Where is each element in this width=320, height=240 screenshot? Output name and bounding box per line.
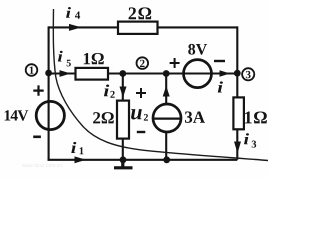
- label 8V: [188, 44, 207, 55]
- label i5 (subscript 5): [67, 60, 71, 67]
- junction dot 3A branch bottom: [163, 156, 170, 163]
- label i4 (i): [66, 7, 71, 18]
- arrowhead i1: [75, 156, 87, 163]
- arrowhead i (8V branch): [220, 70, 231, 77]
- cut-set curve: [53, 9, 268, 161]
- resistor 2 ohm (top): [118, 22, 158, 34]
- label i5 (i): [58, 51, 63, 62]
- node marker circle 1: [26, 64, 38, 76]
- wire bottom rail: [48, 159, 238, 161]
- resistor 1 ohm (right vertical): [233, 97, 244, 129]
- watermark: [22, 163, 62, 167]
- wire left vertical branch: [48, 26, 50, 159]
- label i2 (subscript 2): [110, 91, 114, 98]
- label i4 (subscript 4): [75, 12, 80, 19]
- label i (8V branch): [218, 81, 223, 92]
- label u2 (u): [131, 109, 142, 119]
- junction dot ground node: [120, 156, 127, 163]
- resistor 2 ohm (left vertical): [117, 101, 129, 139]
- label 3A: [185, 111, 205, 122]
- wire 3A source vertical branch: [165, 74, 167, 160]
- wire through 14V source: [48, 102, 50, 130]
- ground symbol: [114, 160, 133, 168]
- label i2 (i): [104, 85, 109, 97]
- wire through 8V source: [184, 72, 211, 74]
- resistor 1 ohm (middle): [76, 68, 109, 80]
- label i3 (i): [244, 133, 249, 144]
- label 1 ohm (right vertical resistor): [245, 111, 267, 123]
- arrowhead i4: [69, 24, 82, 31]
- voltage source 8V circle: [184, 60, 212, 88]
- label i3 (subscript 3): [252, 141, 257, 148]
- label i1 (subscript 1): [80, 147, 84, 154]
- plus sign 8V: [170, 58, 180, 68]
- label 2 ohm (left vertical resistor): [93, 112, 114, 123]
- junction dot node 1: [45, 70, 52, 77]
- junction dot node 3: [234, 70, 241, 77]
- node marker circle 3: [242, 68, 254, 80]
- node digit 3: [246, 71, 251, 78]
- node digit 2: [140, 60, 145, 67]
- minus sign 8V: [214, 60, 225, 62]
- label 1 ohm (middle resistor): [84, 53, 104, 64]
- arrowhead i3: [234, 142, 241, 154]
- junction dot 3A branch top: [163, 70, 170, 77]
- wire top rail: [48, 26, 237, 28]
- label i1 (i): [71, 142, 76, 153]
- minus sign u2: [137, 131, 146, 133]
- voltage source 14V circle: [36, 101, 64, 129]
- current source 3A transverse bar: [154, 117, 181, 119]
- wire u2 / 2 ohm vertical branch: [122, 74, 124, 160]
- current source 3A circle: [153, 104, 181, 132]
- arrowhead i2: [120, 87, 127, 98]
- node marker circle 2: [137, 57, 149, 69]
- minus sign 14V: [33, 136, 41, 139]
- wire middle rail node1-node3: [49, 72, 238, 74]
- arrowhead i5: [60, 70, 71, 77]
- arrowhead 3A source direction: [163, 86, 170, 97]
- label 2 ohm (top resistor): [129, 7, 152, 19]
- node digit 1: [30, 67, 34, 74]
- plus sign 14V: [33, 85, 43, 95]
- plus sign u2: [136, 88, 146, 98]
- label 14V: [5, 110, 29, 120]
- junction dot u2 branch top: [119, 70, 126, 77]
- label u2 (subscript 2): [144, 114, 148, 121]
- wire right vertical branch: [236, 26, 238, 159]
